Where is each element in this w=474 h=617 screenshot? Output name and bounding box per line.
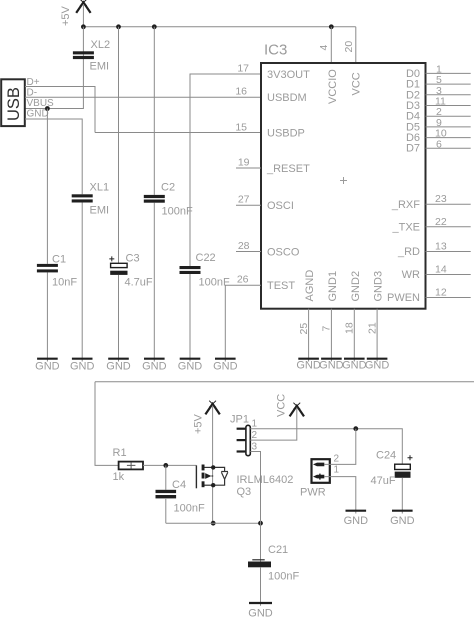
junction dot R1 / C4 [163, 463, 168, 468]
svg-text:GND: GND [365, 360, 390, 372]
resistor R1 [113, 447, 144, 483]
svg-text:GND: GND [344, 515, 369, 527]
svg-text:GND: GND [319, 360, 344, 372]
svg-text:IC3: IC3 [264, 42, 287, 59]
ferrite bead XL2 [73, 39, 110, 73]
wire C21 column [260, 523, 262, 561]
wire 3V3OUT to C22 column [190, 74, 261, 266]
IC op U1 IC3 FT245 box [261, 42, 426, 309]
wire stub pin 28 OSCO [236, 251, 261, 253]
wire pin 21 GND3 drop [376, 309, 378, 362]
svg-text:C21: C21 [268, 544, 288, 556]
svg-text:VCC: VCC [276, 394, 288, 417]
svg-text:XL1: XL1 [90, 182, 110, 194]
svg-text:JP1: JP1 [230, 414, 249, 426]
wire pin 23 _RXF [426, 203, 471, 205]
svg-text:USB: USB [5, 87, 23, 121]
wire top +5V rail [83, 26, 355, 28]
capacitor C24 polarized [371, 450, 413, 488]
svg-text:GND1: GND1 [327, 271, 339, 302]
svg-text:XL2: XL2 [91, 39, 111, 51]
svg-text:PWR: PWR [300, 487, 326, 499]
wire VCC to JP1 pin 2 [250, 408, 296, 441]
svg-text:GND: GND [342, 360, 367, 372]
svg-text:+5V: +5V [193, 413, 205, 434]
svg-text:19: 19 [238, 157, 250, 169]
ground symbol under GND3 pin 21 [365, 359, 390, 372]
connector JP1 [230, 414, 258, 456]
svg-text:10nF: 10nF [52, 277, 77, 289]
ground symbol under GND2 pin 18 [342, 359, 367, 372]
capacitor C22 [180, 252, 230, 289]
connector USB [1, 79, 25, 126]
ground symbol under PWR [344, 511, 369, 527]
ground symbol under XL1 [70, 359, 95, 373]
svg-text:GND: GND [248, 608, 273, 617]
wire USB GND over and down to XL1 [25, 119, 82, 194]
svg-text:GND: GND [178, 361, 203, 373]
svg-text:USBDM: USBDM [267, 92, 307, 104]
transistor Q3 IRLML6402 [196, 465, 293, 499]
svg-text:GND: GND [35, 361, 60, 373]
wire rail corner down to R1 [95, 382, 119, 466]
svg-text:3V3OUT: 3V3OUT [267, 69, 310, 81]
svg-text:12: 12 [435, 287, 447, 299]
ground symbol under C1 [35, 359, 60, 373]
wire stub pin 19 _RESET [236, 167, 261, 169]
svg-text:C1: C1 [52, 254, 66, 266]
svg-text:C3: C3 [126, 253, 140, 265]
ferrite bead XL1 [72, 182, 109, 217]
svg-text:7: 7 [321, 326, 333, 332]
wire stub pin 27 OSCI [236, 204, 261, 206]
svg-text:21: 21 [366, 322, 378, 334]
svg-text:23: 23 [435, 193, 447, 205]
svg-text:VCCIO: VCCIO [327, 69, 339, 104]
wire C3 to GND symbol [118, 275, 120, 362]
svg-text:OSCI: OSCI [267, 200, 294, 212]
power VCC symbol [276, 394, 305, 417]
wire IC3 pin 20 drop [355, 27, 357, 63]
power +5V symbol bottom [193, 401, 220, 434]
ground symbol under C22 [178, 359, 203, 373]
wire C1 to GND symbol [46, 272, 48, 361]
wire JP1 pin 1 rail to C24 [250, 429, 402, 465]
wire pin 14 WR [426, 274, 471, 276]
wire VBUS down to C1 [46, 109, 48, 264]
wire pin 18 GND2 drop [353, 309, 355, 362]
svg-text:C24: C24 [376, 450, 396, 462]
svg-text:2: 2 [252, 430, 258, 441]
wire pin 12 PWEN [426, 297, 471, 299]
svg-text:R1: R1 [113, 447, 127, 459]
wire C21 to GND [260, 567, 262, 606]
svg-text:_RXF: _RXF [391, 199, 420, 211]
wire C2 to GND symbol [153, 203, 155, 362]
wire IC3 pin 4 drop [330, 27, 332, 63]
power +5V symbol top [60, 0, 91, 26]
wire +5V column through Q3 to bottom rail [212, 406, 214, 524]
svg-text:26: 26 [237, 274, 249, 286]
junction dot VBUS / C1 [45, 106, 50, 111]
svg-text:13: 13 [435, 241, 447, 253]
svg-text:100nF: 100nF [268, 571, 299, 583]
svg-text:_RD: _RD [397, 246, 420, 258]
wire PWR pin 2 up to VCC rail [325, 429, 356, 465]
junction dot Q3 source [211, 483, 215, 487]
junction dot at XL2 column [81, 24, 86, 29]
wire C3 column [118, 27, 120, 263]
wire C2 column [153, 27, 155, 195]
svg-text:47uF: 47uF [371, 475, 396, 487]
svg-text:15: 15 [235, 122, 247, 134]
wire pin 9 D5 [426, 126, 471, 128]
junction dot C21 top [258, 521, 263, 526]
svg-text:4.7uF: 4.7uF [125, 277, 153, 289]
wire TEST pin 26 to GND [225, 285, 261, 361]
wire pin 13 _RD [426, 251, 471, 253]
ground symbol under C21 [248, 603, 273, 617]
ground symbol under C2 [142, 359, 167, 373]
svg-text:100nF: 100nF [162, 206, 193, 218]
svg-text:2: 2 [334, 454, 340, 465]
svg-text:25: 25 [298, 323, 310, 335]
svg-text:16: 16 [235, 86, 247, 98]
svg-text:GND: GND [70, 361, 95, 373]
svg-text:C2: C2 [161, 182, 175, 194]
svg-text:28: 28 [238, 240, 250, 252]
junction dot at C2 column [152, 24, 157, 29]
svg-text:VCC: VCC [351, 72, 363, 95]
junction dot at IC3 pin 4 [329, 24, 334, 29]
wire pin 2 D4 [426, 115, 471, 117]
svg-text:EMI: EMI [90, 205, 110, 217]
wire XL2 column down to VBUS and over to USB [25, 27, 83, 109]
wire pin 7 GND1 drop [330, 309, 332, 362]
svg-text:3: 3 [252, 442, 258, 453]
wire +5V drop to rail [82, 4, 84, 27]
wire pin 10 D6 [426, 137, 471, 139]
svg-text:14: 14 [435, 264, 447, 276]
svg-text:USBDP: USBDP [267, 128, 305, 140]
wire R1 to Q3 gate [143, 464, 196, 466]
svg-text:Q3: Q3 [237, 486, 252, 498]
svg-text:WR: WR [402, 269, 420, 281]
svg-text:GND: GND [390, 515, 415, 527]
svg-text:GND: GND [142, 361, 167, 373]
svg-text:IRLML6402: IRLML6402 [237, 474, 294, 486]
wire pin 5 D1 [426, 83, 471, 85]
wire pin 3 D2 [426, 94, 471, 96]
wire C4 drop [165, 465, 167, 489]
svg-text:1: 1 [252, 419, 258, 430]
capacitor C4 [156, 479, 205, 515]
junction dot at C3 column [116, 24, 121, 29]
svg-text:+5V: +5V [60, 5, 72, 26]
svg-text:GND3: GND3 [373, 271, 385, 302]
svg-text:22: 22 [435, 216, 447, 228]
svg-text:GND: GND [213, 361, 238, 373]
svg-text:GND: GND [106, 361, 131, 373]
svg-text:TEST: TEST [267, 280, 295, 292]
svg-text:17: 17 [237, 63, 249, 75]
junction dot Q3 drain [211, 465, 215, 469]
ground symbol under C24 [390, 511, 415, 527]
capacitor C21 [248, 544, 299, 583]
svg-text:_RESET: _RESET [266, 163, 310, 175]
ground symbol under C3 [106, 359, 131, 373]
wire bottom section top rail [95, 381, 474, 383]
svg-text:D7: D7 [406, 143, 420, 155]
capacitor C1 [37, 254, 77, 289]
svg-text:GND: GND [27, 109, 49, 120]
ground symbol under GND1 pin 7 [319, 359, 344, 372]
svg-text:1: 1 [334, 465, 340, 476]
wire D+ to USBDP jog [25, 87, 95, 133]
wire C4 to bottom rail [165, 499, 167, 523]
junction dot PWR feed [353, 426, 358, 431]
svg-text:18: 18 [344, 322, 356, 334]
wire pin 1 D0 [426, 72, 471, 74]
connector PWR [300, 454, 340, 499]
svg-text:GND2: GND2 [350, 271, 362, 302]
svg-text:C4: C4 [172, 479, 186, 491]
wire XL1 to GND symbol [81, 202, 83, 361]
wire pin 22 _TXE [426, 226, 471, 228]
svg-text:C22: C22 [196, 252, 216, 264]
svg-text:1k: 1k [113, 471, 125, 483]
wire PWR pin 1 down to GND [325, 477, 356, 514]
wire D- to IC3 pin 16 USBDM [25, 96, 261, 98]
svg-text:VBUS: VBUS [27, 98, 55, 109]
svg-text:GND: GND [296, 360, 321, 372]
wire bottom rail C4 to C21 [166, 522, 261, 524]
svg-text:AGND: AGND [304, 270, 316, 302]
svg-text:4: 4 [318, 45, 330, 51]
ground symbol under AGND pin 25 [296, 359, 321, 372]
ground symbol under TEST [213, 359, 238, 373]
wire C24 to GND [401, 478, 403, 514]
wire pin 25 AGND drop [308, 309, 310, 362]
svg-text:100nF: 100nF [174, 503, 205, 515]
wire pin 6 D7 [426, 147, 471, 149]
capacitor C2 [144, 182, 193, 218]
wire pin 11 D3 [426, 105, 471, 107]
svg-text:PWEN: PWEN [387, 292, 420, 304]
wire USBDP to IC3 pin 15 [95, 132, 261, 134]
wire C22 to GND symbol [189, 274, 191, 362]
junction dot Q3 column bottom rail [211, 521, 216, 526]
capacitor C3 polarized [109, 253, 153, 289]
svg-text:27: 27 [238, 194, 250, 206]
svg-text:_TXE: _TXE [391, 222, 420, 234]
svg-text:EMI: EMI [90, 61, 110, 73]
wire JP1 pin 3 down to bottom rail [250, 452, 260, 524]
svg-text:OSCO: OSCO [267, 247, 300, 259]
svg-text:20: 20 [343, 41, 355, 53]
